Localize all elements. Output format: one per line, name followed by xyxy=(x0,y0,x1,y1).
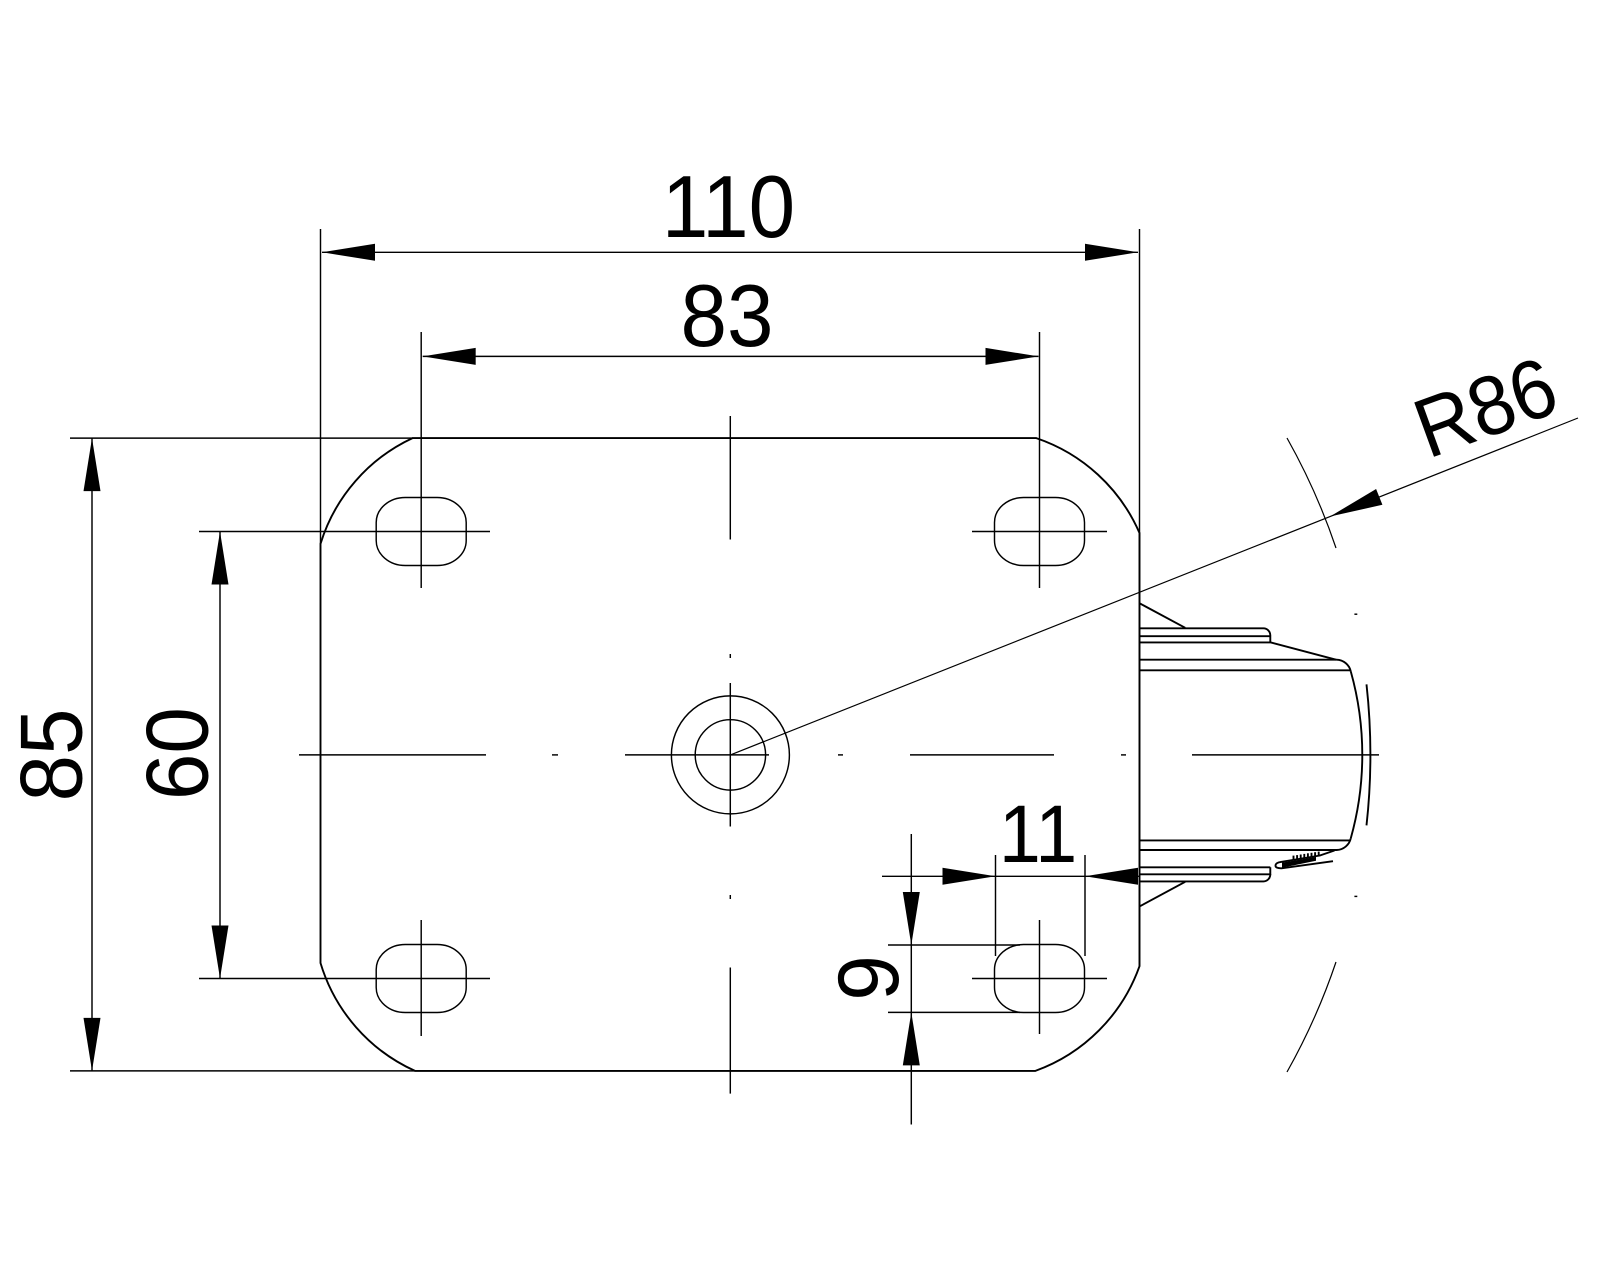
dimension 60: dimension line with arrows xyxy=(219,532,221,979)
plate outline (top view, rounded-corner mounting plate) xyxy=(321,438,1140,1071)
slot TL crosshair xyxy=(199,332,490,588)
slot hole BL xyxy=(376,945,466,1013)
svg-text:9: 9 xyxy=(820,955,916,1000)
side view: top band xyxy=(1140,628,1270,642)
slot hole BR xyxy=(995,945,1085,1013)
dimension 11: dimension line with outside arrows xyxy=(882,875,1140,877)
radius R86 leader line xyxy=(730,418,1578,755)
dimension 85: extension lines xyxy=(70,438,415,1071)
dimension 9: dimension line with outside arrows xyxy=(910,834,912,1125)
center hole outer circle xyxy=(671,696,789,814)
dimension 110: extension lines xyxy=(321,229,1140,966)
side view: fork top diagonal xyxy=(1140,604,1185,628)
horizontal centerline (plate + side view), dashed xyxy=(299,754,1379,756)
dimension 11: extension lines xyxy=(996,855,1086,956)
R86 swivel-circle tick (lower) xyxy=(1287,962,1336,1072)
slot BL crosshair xyxy=(199,920,490,1036)
slot TR crosshair xyxy=(972,332,1107,588)
svg-text:83: 83 xyxy=(681,267,774,365)
slot BR crosshair xyxy=(972,920,1107,1034)
svg-text:85: 85 xyxy=(3,709,101,802)
side view: wheel edge arc xyxy=(1367,684,1371,825)
R86 swivel-circle tick (upper) xyxy=(1287,438,1336,548)
side view: body right edge arc xyxy=(1351,672,1362,839)
svg-text:60: 60 xyxy=(129,707,227,800)
dimension 110: dimension line with arrows xyxy=(322,251,1138,253)
side view: bottom band xyxy=(1140,866,1270,868)
R86 swivel-circle dot (lower) xyxy=(1354,895,1357,897)
side view: brake pedal dark band xyxy=(1282,857,1316,868)
side view: brake pedal teeth xyxy=(1294,852,1319,860)
svg-text:11: 11 xyxy=(999,788,1077,880)
side view: fork bottom diagonal xyxy=(1140,882,1185,906)
center hole inner circle xyxy=(695,720,765,790)
svg-text:110: 110 xyxy=(662,158,795,256)
dimension 85: dimension line with arrows xyxy=(91,438,93,1071)
dimension 9: extension lines xyxy=(888,945,1020,1012)
side view: body top edge xyxy=(1140,660,1351,672)
side view: top shoulder line + diagonal xyxy=(1140,642,1336,659)
side view: bottom shoulder diagonal xyxy=(1320,851,1335,856)
slot hole TR xyxy=(995,498,1085,566)
dimension 83: dimension line with arrows xyxy=(423,355,1039,357)
side view: brake pedal outline xyxy=(1276,856,1334,869)
radius R86 arrowhead xyxy=(1330,489,1382,517)
side view: body bottom edge xyxy=(1140,839,1350,841)
slot hole TL xyxy=(376,498,466,566)
vertical centerline (plate), dashed xyxy=(729,416,731,1094)
R86 swivel-circle dot (upper) xyxy=(1354,613,1357,615)
